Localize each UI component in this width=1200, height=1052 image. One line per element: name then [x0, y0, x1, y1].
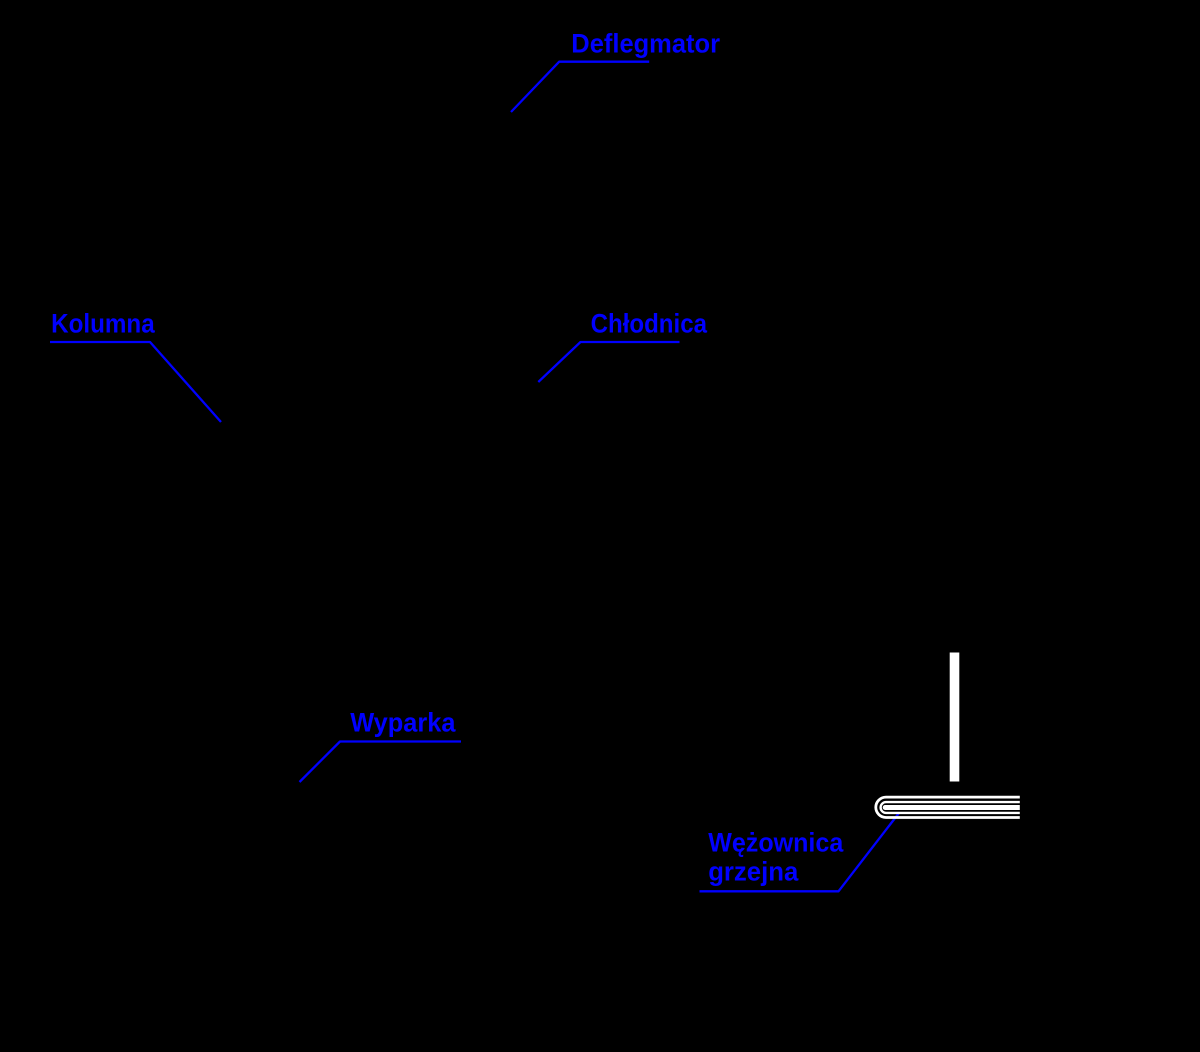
svg-text:Wyparka: Wyparka [350, 707, 456, 737]
svg-text:Kolumna: Kolumna [51, 309, 155, 339]
svg-text:grzejna: grzejna [708, 856, 799, 886]
svg-text:Deflegmator: Deflegmator [571, 28, 720, 58]
svg-text:Wężownica: Wężownica [708, 828, 844, 858]
svg-text:Chłodnica: Chłodnica [591, 309, 708, 339]
